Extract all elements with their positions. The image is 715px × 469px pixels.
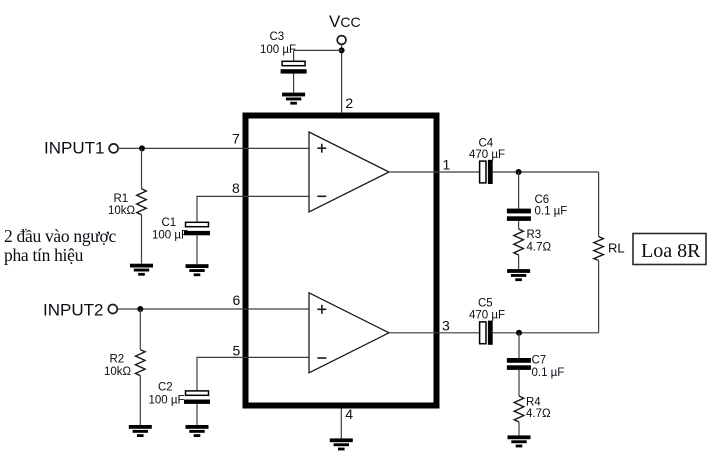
svg-text:470 µF: 470 µF xyxy=(469,149,505,161)
wire R1 bottom lead xyxy=(141,215,143,264)
capacitor C7 (non-polarized) xyxy=(507,358,531,370)
wire R3 bottom lead xyxy=(518,255,520,269)
svg-text:4.7Ω: 4.7Ω xyxy=(526,408,551,420)
svg-text:100 µF: 100 µF xyxy=(152,230,188,242)
wire VCC circle to pin 2 xyxy=(341,45,343,113)
wire C6 top lead xyxy=(518,172,520,209)
capacitor C2 (polarized) xyxy=(184,391,210,404)
capacitor C5 (polarized, horizontal) xyxy=(480,321,493,345)
svg-text:10kΩ: 10kΩ xyxy=(108,205,136,217)
svg-text:3: 3 xyxy=(442,318,450,334)
wire C7 top lead xyxy=(518,333,520,358)
wire op-amp U1A output to C4 xyxy=(389,171,480,173)
wire R4 bottom lead xyxy=(518,422,520,435)
ground (below R3) xyxy=(507,269,530,281)
wire C6 to R3 xyxy=(518,221,520,229)
op-amp U1A xyxy=(309,132,389,212)
wire pin 5 to C2 xyxy=(197,357,309,391)
wire C5 to RL bottom node xyxy=(493,332,599,334)
wire INPUT2 to op-amp U1B + input (pin 6) xyxy=(117,308,309,310)
wire INPUT1 to op-amp U1A + input (pin 7) xyxy=(118,147,309,149)
ground (below R2) xyxy=(129,425,152,437)
svg-text:R1: R1 xyxy=(114,193,129,205)
ground (below C3) xyxy=(282,93,305,105)
svg-text:4: 4 xyxy=(345,406,353,422)
svg-text:Loa 8R: Loa 8R xyxy=(641,240,701,262)
wire op-amp U1B output to C5 xyxy=(389,332,480,334)
svg-text:VCC: VCC xyxy=(329,12,361,31)
node VCC terminal circle xyxy=(337,36,346,45)
ground (below C2) xyxy=(186,425,209,437)
ground (pin 4) xyxy=(330,438,353,450)
capacitor C4 (polarized, horizontal) xyxy=(480,160,493,184)
svg-text:6: 6 xyxy=(233,292,241,308)
resistor R2 (zigzag) xyxy=(136,350,146,376)
svg-text:7: 7 xyxy=(232,130,240,146)
ground (below C1) xyxy=(186,264,209,276)
svg-text:470 µF: 470 µF xyxy=(469,310,505,322)
svg-text:R3: R3 xyxy=(527,229,542,241)
svg-text:C7: C7 xyxy=(532,355,547,367)
op-amp U1B xyxy=(309,293,389,373)
ground (below R1) xyxy=(130,264,153,276)
svg-text:4.7Ω: 4.7Ω xyxy=(527,242,552,254)
svg-text:0.1 µF: 0.1 µF xyxy=(535,206,568,218)
svg-text:INPUT1: INPUT1 xyxy=(44,138,104,157)
svg-text:RL: RL xyxy=(608,241,625,256)
svg-text:R2: R2 xyxy=(110,354,125,366)
wire C1 bottom lead xyxy=(196,235,198,264)
svg-text:0.1 µF: 0.1 µF xyxy=(532,367,565,379)
wire pin 4 to ground xyxy=(340,409,342,439)
svg-text:C1: C1 xyxy=(162,217,177,229)
node INPUT2 terminal circle xyxy=(108,305,117,314)
resistor RL (zigzag) xyxy=(594,237,604,261)
resistor R1 (zigzag) xyxy=(137,189,147,215)
wire C3 bottom lead xyxy=(293,74,295,93)
junction C5/C7 xyxy=(516,330,522,336)
wire R2 bottom lead xyxy=(139,376,141,425)
svg-text:C2: C2 xyxy=(158,382,173,394)
wire C3 top lead xyxy=(293,50,295,61)
wire R2 top lead xyxy=(139,309,141,350)
IC body U1 (thick box) xyxy=(246,116,437,406)
node INPUT1 terminal circle xyxy=(109,144,118,153)
svg-text:10kΩ: 10kΩ xyxy=(104,366,132,378)
wire C4 to RL corner xyxy=(493,171,599,173)
junction INPUT2/R2 xyxy=(137,306,143,312)
svg-text:C4: C4 xyxy=(479,138,494,150)
junction C4/C6 xyxy=(516,169,522,175)
svg-text:R4: R4 xyxy=(526,397,541,409)
capacitor C3 (polarized) xyxy=(281,61,307,73)
ground (below R4) xyxy=(508,435,531,447)
wire pin 8 to C1 xyxy=(197,196,309,222)
svg-text:C5: C5 xyxy=(478,298,493,310)
svg-text:100 µF: 100 µF xyxy=(149,395,185,407)
junction VCC/C3 xyxy=(339,47,345,53)
resistor R3 (zigzag) xyxy=(514,229,524,255)
svg-text:5: 5 xyxy=(233,343,241,359)
svg-text:pha tín hiệu: pha tín hiệu xyxy=(4,245,84,265)
capacitor C6 (non-polarized) xyxy=(507,209,531,221)
wire C7 to R4 xyxy=(518,370,520,396)
svg-text:C6: C6 xyxy=(535,194,550,206)
svg-text:1: 1 xyxy=(443,157,451,173)
resistor R4 (zigzag) xyxy=(514,396,524,422)
wire RL bottom to output 2 node xyxy=(598,260,600,332)
svg-text:100 µF: 100 µF xyxy=(260,44,296,56)
wire corner down to RL xyxy=(598,172,600,237)
wire R1 top lead xyxy=(141,148,143,188)
svg-text:INPUT2: INPUT2 xyxy=(43,301,103,320)
svg-text:2: 2 xyxy=(345,95,353,111)
svg-text:2 đầu vào ngược: 2 đầu vào ngược xyxy=(4,226,116,246)
capacitor C1 (polarized) xyxy=(184,222,210,235)
wire C2 bottom lead xyxy=(196,404,198,425)
wire C3 branch horizontal xyxy=(294,49,342,51)
speaker box Loa 8R xyxy=(633,234,706,265)
junction INPUT1/R1 xyxy=(139,145,145,151)
svg-text:8: 8 xyxy=(232,180,240,196)
svg-text:C3: C3 xyxy=(270,31,285,43)
